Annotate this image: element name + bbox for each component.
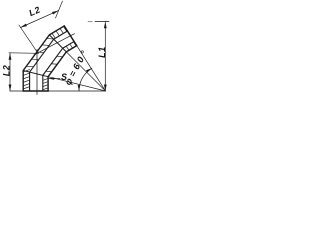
- L2 top extension line from hub: [19, 25, 38, 53]
- elbow outer-left contour: [23, 26, 64, 91]
- inclined end axis centerline: [34, 34, 75, 55]
- L2 top extension line from face: [56, 1, 63, 18]
- svg-text:L2: L2: [2, 65, 12, 77]
- section hatching: [23, 26, 76, 89]
- dimension line L2 top: [21, 11, 59, 28]
- L1 extension line top right: [95, 21, 109, 23]
- bottom face plane extension line: [10, 90, 106, 92]
- angle dimension arc: [79, 68, 92, 91]
- bottom end axis centerline: [36, 50, 38, 95]
- svg-text:L2: L2: [27, 4, 42, 18]
- elbow inclined end face: [64, 26, 76, 46]
- weld joint 1 line: [23, 70, 48, 76]
- L2 left extension line: [9, 52, 39, 55]
- elbow bore-left contour: [30, 31, 68, 91]
- joint 1 construction line to vertex: [48, 77, 105, 91]
- elbow bore-right contour: [43, 41, 74, 91]
- joint 2 construction line to vertex: [66, 52, 105, 91]
- elbow outer-right contour: [48, 46, 77, 91]
- dimension line L1 right: [104, 22, 106, 92]
- svg-text:S: S: [61, 72, 67, 82]
- wall thickness S leader: [49, 78, 60, 80]
- weld joint 2 line: [49, 35, 66, 52]
- dimension line L2 left: [9, 53, 11, 91]
- elbow bottom end face: [23, 90, 48, 92]
- svg-text:L1: L1: [97, 46, 107, 58]
- inclined face plane extension to vertex: [77, 46, 106, 91]
- L1 extension line faint dash: [88, 21, 92, 23]
